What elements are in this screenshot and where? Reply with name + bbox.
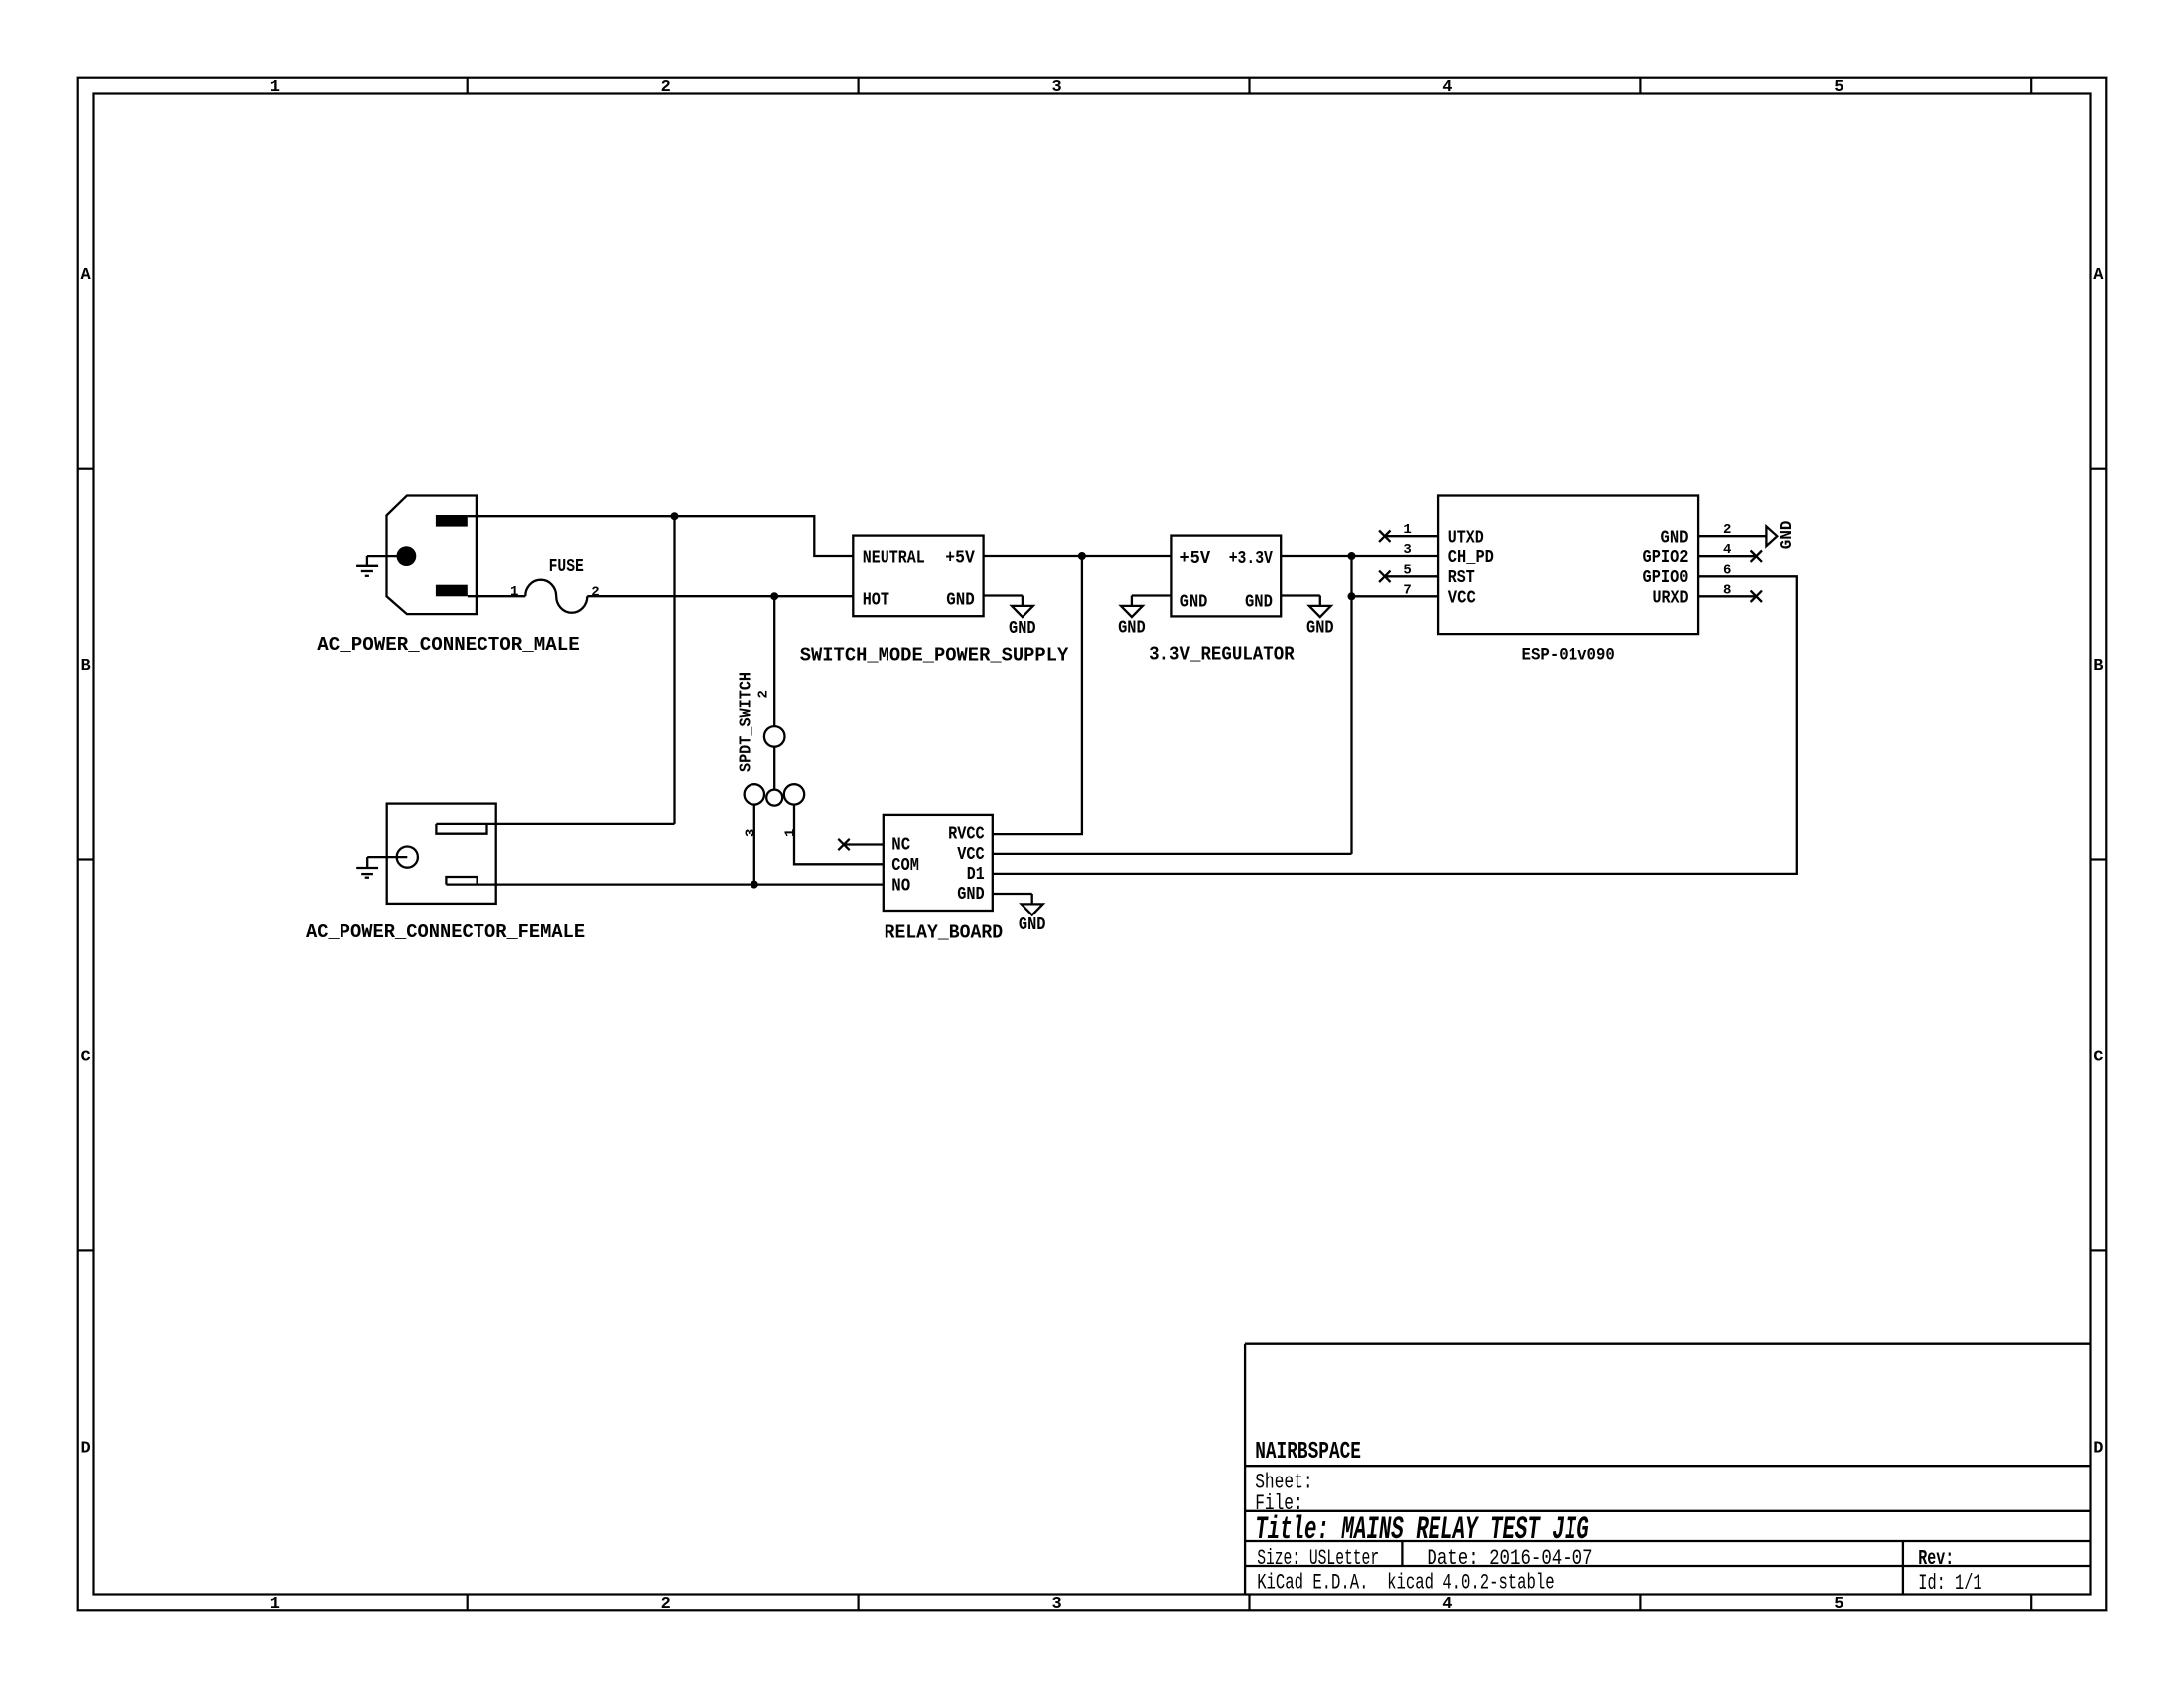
- switch SW1 pin 2 wire: [773, 596, 775, 726]
- pin name +3.3V: [1229, 549, 1273, 569]
- no-connect pin 1: [1379, 531, 1390, 542]
- component U3 ESP-01v090 box: [1438, 496, 1698, 635]
- label FUSE: [549, 557, 584, 577]
- label GND reg left: [1118, 619, 1146, 638]
- svg-text:3: 3: [1051, 78, 1061, 97]
- svg-text:3: 3: [743, 829, 758, 837]
- svg-text:NEUTRAL: NEUTRAL: [863, 549, 925, 569]
- pin NC stub: [844, 843, 884, 845]
- svg-text:B: B: [80, 657, 90, 676]
- svg-text:+5V: +5V: [945, 549, 975, 569]
- svg-text:C: C: [80, 1049, 90, 1067]
- switch SW1 pin 2 contact: [764, 726, 785, 747]
- pin name NC: [891, 836, 910, 856]
- svg-text:1: 1: [1403, 522, 1411, 538]
- label AC_POWER_CONNECTOR_MALE: [317, 634, 580, 656]
- pin 5 RST stub: [1385, 575, 1438, 577]
- connector J1 hot prong: [436, 585, 468, 597]
- junction +3.3V tap: [1348, 552, 1356, 560]
- pin name GND esp: [1661, 529, 1689, 549]
- svg-text:COM: COM: [891, 856, 919, 876]
- svg-text:CH_PD: CH_PD: [1448, 548, 1494, 568]
- pin name HOT: [863, 591, 889, 611]
- pin number 8: [1723, 582, 1731, 598]
- wire neutral from J1 to SMPS: [468, 516, 854, 556]
- svg-text:UTXD: UTXD: [1448, 529, 1484, 549]
- pin name D1: [967, 865, 985, 885]
- svg-text:+5V: +5V: [1180, 549, 1211, 569]
- svg-text:RVCC: RVCC: [948, 825, 985, 845]
- connector J1 ground pin: [397, 546, 417, 566]
- switch SW1 lever: [773, 747, 775, 790]
- ground symbol reg left: [1121, 596, 1143, 618]
- svg-text:GND: GND: [1777, 521, 1796, 550]
- ground flag triangle esp pin2: [1766, 526, 1777, 546]
- svg-text:1: 1: [783, 829, 799, 837]
- svg-text:1: 1: [510, 584, 518, 600]
- svg-text:3: 3: [1403, 542, 1411, 558]
- pin name CH_PD: [1448, 548, 1494, 568]
- junction switch to NO wire: [751, 881, 758, 889]
- pin name URXD: [1653, 589, 1689, 609]
- fuse F1: [525, 580, 587, 613]
- wire J2 ground pin: [367, 856, 407, 858]
- svg-text:SPDT_SWITCH: SPDT_SWITCH: [738, 672, 756, 772]
- wire +3.3V to ESP CH_PD: [1281, 555, 1438, 557]
- label ESP-01v090: [1522, 647, 1615, 666]
- svg-text:Size: USLetter: Size: USLetter: [1257, 1545, 1379, 1571]
- junction hot tap for switch: [770, 592, 778, 600]
- svg-text:+3.3V: +3.3V: [1229, 549, 1273, 569]
- svg-text:GPIO2: GPIO2: [1643, 548, 1689, 568]
- pin number 6: [1723, 562, 1731, 578]
- svg-text:GND: GND: [1118, 619, 1146, 638]
- svg-text:HOT: HOT: [863, 591, 889, 611]
- wire +5V rail: [984, 555, 1172, 557]
- svg-text:1: 1: [270, 1595, 280, 1614]
- svg-text:AC_POWER_CONNECTOR_FEMALE: AC_POWER_CONNECTOR_FEMALE: [306, 921, 585, 943]
- svg-text:5: 5: [1403, 562, 1411, 578]
- svg-text:C: C: [2093, 1049, 2103, 1067]
- connector J2 bottom slot: [446, 877, 477, 885]
- pin number 2: [1723, 522, 1731, 538]
- svg-text:SWITCH_MODE_POWER_SUPPLY: SWITCH_MODE_POWER_SUPPLY: [800, 644, 1069, 666]
- wire VCC to relay: [993, 853, 1352, 855]
- switch pin number 2: [756, 690, 772, 698]
- svg-text:FUSE: FUSE: [549, 557, 584, 577]
- svg-text:D1: D1: [967, 865, 985, 885]
- no-connect pin 5: [1379, 571, 1390, 582]
- svg-text:GND: GND: [1019, 915, 1046, 935]
- row labels A-D: [80, 266, 2104, 1459]
- wire switch pin 1 to relay COM: [794, 805, 884, 865]
- svg-text:RELAY_BOARD: RELAY_BOARD: [885, 922, 1004, 944]
- junction VCC node: [1348, 592, 1356, 600]
- component U2 3.3V_REGULATOR box: [1171, 536, 1281, 617]
- pin 4 GPIO2 stub: [1698, 555, 1756, 557]
- switch SW1 pin 1 contact: [784, 784, 804, 804]
- rev field: [1918, 1548, 1954, 1571]
- svg-text:2: 2: [591, 584, 599, 600]
- svg-text:Rev:: Rev:: [1918, 1548, 1954, 1571]
- no-connect relay NC: [838, 839, 849, 850]
- connector J2 ground pin: [397, 847, 418, 868]
- switch SW1 pin 3 contact: [745, 784, 764, 804]
- svg-text:1: 1: [270, 78, 280, 97]
- svg-text:B: B: [2093, 657, 2103, 676]
- svg-text:2: 2: [661, 78, 671, 97]
- svg-text:KiCad E.D.A. kicad 4.0.2-stab: KiCad E.D.A. kicad 4.0.2-stable: [1257, 1570, 1554, 1596]
- pin name GND reg right: [1245, 592, 1273, 612]
- label GND reg right: [1306, 619, 1334, 638]
- component U4 RELAY_BOARD box: [884, 815, 993, 911]
- column labels 1-5: [270, 78, 1844, 1614]
- svg-text:VCC: VCC: [957, 845, 985, 865]
- label GND relay: [1019, 915, 1046, 935]
- wire reg left GND to ground: [1132, 594, 1172, 596]
- connector J2 AC_POWER_CONNECTOR_FEMALE outline: [387, 804, 496, 904]
- svg-text:5: 5: [1834, 1595, 1843, 1614]
- id field: [1918, 1570, 1981, 1596]
- pin 1 UTXD stub: [1385, 535, 1438, 537]
- pin name NO: [891, 877, 910, 897]
- wire SMPS GND to ground: [984, 594, 1023, 596]
- pin 8 URXD stub: [1698, 595, 1756, 597]
- svg-text:4: 4: [1442, 1595, 1452, 1614]
- wire switch pin 3 to NO net: [753, 805, 755, 885]
- svg-text:NO: NO: [891, 877, 910, 897]
- svg-text:URXD: URXD: [1653, 589, 1689, 609]
- pin name VCC relay: [957, 845, 985, 865]
- connector J1 neutral prong: [436, 515, 468, 527]
- ground symbol for J1: [356, 556, 396, 576]
- ground symbol relay: [1022, 894, 1043, 915]
- pin name RVCC: [948, 825, 985, 845]
- row tick marks: [78, 469, 2107, 1251]
- pin name +5V: [945, 549, 975, 569]
- svg-text:RST: RST: [1448, 568, 1475, 588]
- switch SW1 pivot contact: [766, 790, 782, 806]
- title field MAINS RELAY TEST JIG: [1255, 1511, 1589, 1548]
- label GND esp flag: [1777, 521, 1796, 550]
- label SPDT_SWITCH: [738, 672, 756, 772]
- wire J1 hot to fuse: [468, 595, 525, 597]
- svg-text:2: 2: [756, 690, 772, 698]
- svg-text:3: 3: [1051, 1595, 1061, 1614]
- pin name UTXD: [1448, 529, 1484, 549]
- no-connect pin 4: [1751, 551, 1762, 562]
- svg-text:GND: GND: [946, 591, 975, 611]
- label 3.3V_REGULATOR: [1149, 644, 1295, 666]
- label RELAY_BOARD: [885, 922, 1004, 944]
- date field: [1427, 1545, 1592, 1571]
- ground symbol reg right: [1309, 596, 1331, 618]
- wire GPIO0 to relay D1: [993, 576, 1797, 874]
- svg-text:2: 2: [661, 1595, 671, 1614]
- wire reg right GND to ground: [1281, 594, 1320, 596]
- label AC_POWER_CONNECTOR_FEMALE: [306, 921, 585, 943]
- label SWITCH_MODE_POWER_SUPPLY: [800, 644, 1069, 666]
- svg-text:Date: 2016-04-07: Date: 2016-04-07: [1427, 1545, 1592, 1571]
- size field: [1257, 1545, 1379, 1571]
- svg-text:GPIO0: GPIO0: [1643, 568, 1689, 588]
- svg-text:NAIRBSPACE: NAIRBSPACE: [1255, 1439, 1361, 1466]
- pin number 1: [1403, 522, 1411, 538]
- sheet field: [1255, 1470, 1312, 1495]
- component U1 SWITCH_MODE_POWER_SUPPLY box: [853, 536, 983, 617]
- ground symbol for J2: [356, 857, 378, 878]
- pin name GND reg left: [1180, 592, 1208, 612]
- junction neutral tap: [671, 512, 679, 520]
- wire +3.3V drop: [1350, 556, 1352, 854]
- svg-text:ESP-01v090: ESP-01v090: [1522, 647, 1615, 666]
- svg-text:4: 4: [1442, 78, 1452, 97]
- switch pin number 3: [743, 829, 758, 837]
- fuse pin 1: [510, 584, 518, 600]
- wire neutral drop to female connector: [673, 516, 675, 824]
- wire relay GND to ground: [993, 893, 1032, 895]
- junction +5V tap: [1078, 552, 1086, 560]
- wire female top slot to neutral drop: [436, 823, 674, 825]
- column tick marks: [468, 78, 2032, 1611]
- svg-text:GND: GND: [1009, 619, 1036, 638]
- svg-text:GND: GND: [1245, 592, 1273, 612]
- wire +5V drop to relay RVCC: [993, 556, 1082, 834]
- svg-text:GND: GND: [1306, 619, 1334, 638]
- file field: [1255, 1490, 1303, 1516]
- svg-text:GND: GND: [1661, 529, 1689, 549]
- pin name NEUTRAL: [863, 549, 925, 569]
- pin name VCC esp: [1448, 589, 1476, 609]
- pin number 3: [1403, 542, 1411, 558]
- pin name RST: [1448, 568, 1475, 588]
- connector J1 AC_POWER_CONNECTOR_MALE outline: [387, 496, 477, 615]
- pin name GND smps: [946, 591, 975, 611]
- svg-text:A: A: [2093, 266, 2104, 285]
- wire VCC to ESP pin7: [1352, 595, 1439, 597]
- no-connect pin 8: [1751, 591, 1762, 602]
- pin name GND relay: [957, 885, 985, 905]
- pin name GPIO0: [1643, 568, 1689, 588]
- svg-text:D: D: [80, 1440, 90, 1459]
- wire fuse to SMPS HOT: [587, 595, 853, 597]
- company name NAIRBSPACE: [1255, 1439, 1361, 1466]
- title block frame: [1245, 1344, 2090, 1595]
- svg-text:Id: 1/1: Id: 1/1: [1918, 1570, 1981, 1596]
- connector J2 top slot: [436, 824, 486, 834]
- fuse pin 2: [591, 584, 599, 600]
- label GND smps: [1009, 619, 1036, 638]
- svg-text:Title: MAINS RELAY TEST JIG: Title: MAINS RELAY TEST JIG: [1255, 1511, 1589, 1548]
- pin name COM: [891, 856, 919, 876]
- svg-text:7: 7: [1403, 582, 1411, 598]
- svg-text:VCC: VCC: [1448, 589, 1476, 609]
- svg-text:NC: NC: [891, 836, 910, 856]
- pin name GPIO2: [1643, 548, 1689, 568]
- switch pin number 1: [783, 829, 799, 837]
- svg-text:GND: GND: [957, 885, 985, 905]
- pin number 7: [1403, 582, 1411, 598]
- pin number 5: [1403, 562, 1411, 578]
- svg-text:A: A: [80, 266, 91, 285]
- wire NO net female to relay: [446, 883, 883, 885]
- svg-text:3.3V_REGULATOR: 3.3V_REGULATOR: [1149, 644, 1295, 666]
- svg-text:5: 5: [1834, 78, 1843, 97]
- pin name +5V reg: [1180, 549, 1211, 569]
- pin 2 GND stub: [1698, 535, 1766, 537]
- svg-text:GND: GND: [1180, 592, 1208, 612]
- ground symbol smps: [1012, 596, 1033, 618]
- svg-text:D: D: [2093, 1440, 2103, 1459]
- svg-text:AC_POWER_CONNECTOR_MALE: AC_POWER_CONNECTOR_MALE: [317, 634, 580, 656]
- kicad version field: [1257, 1570, 1554, 1596]
- pin number 4: [1723, 542, 1731, 558]
